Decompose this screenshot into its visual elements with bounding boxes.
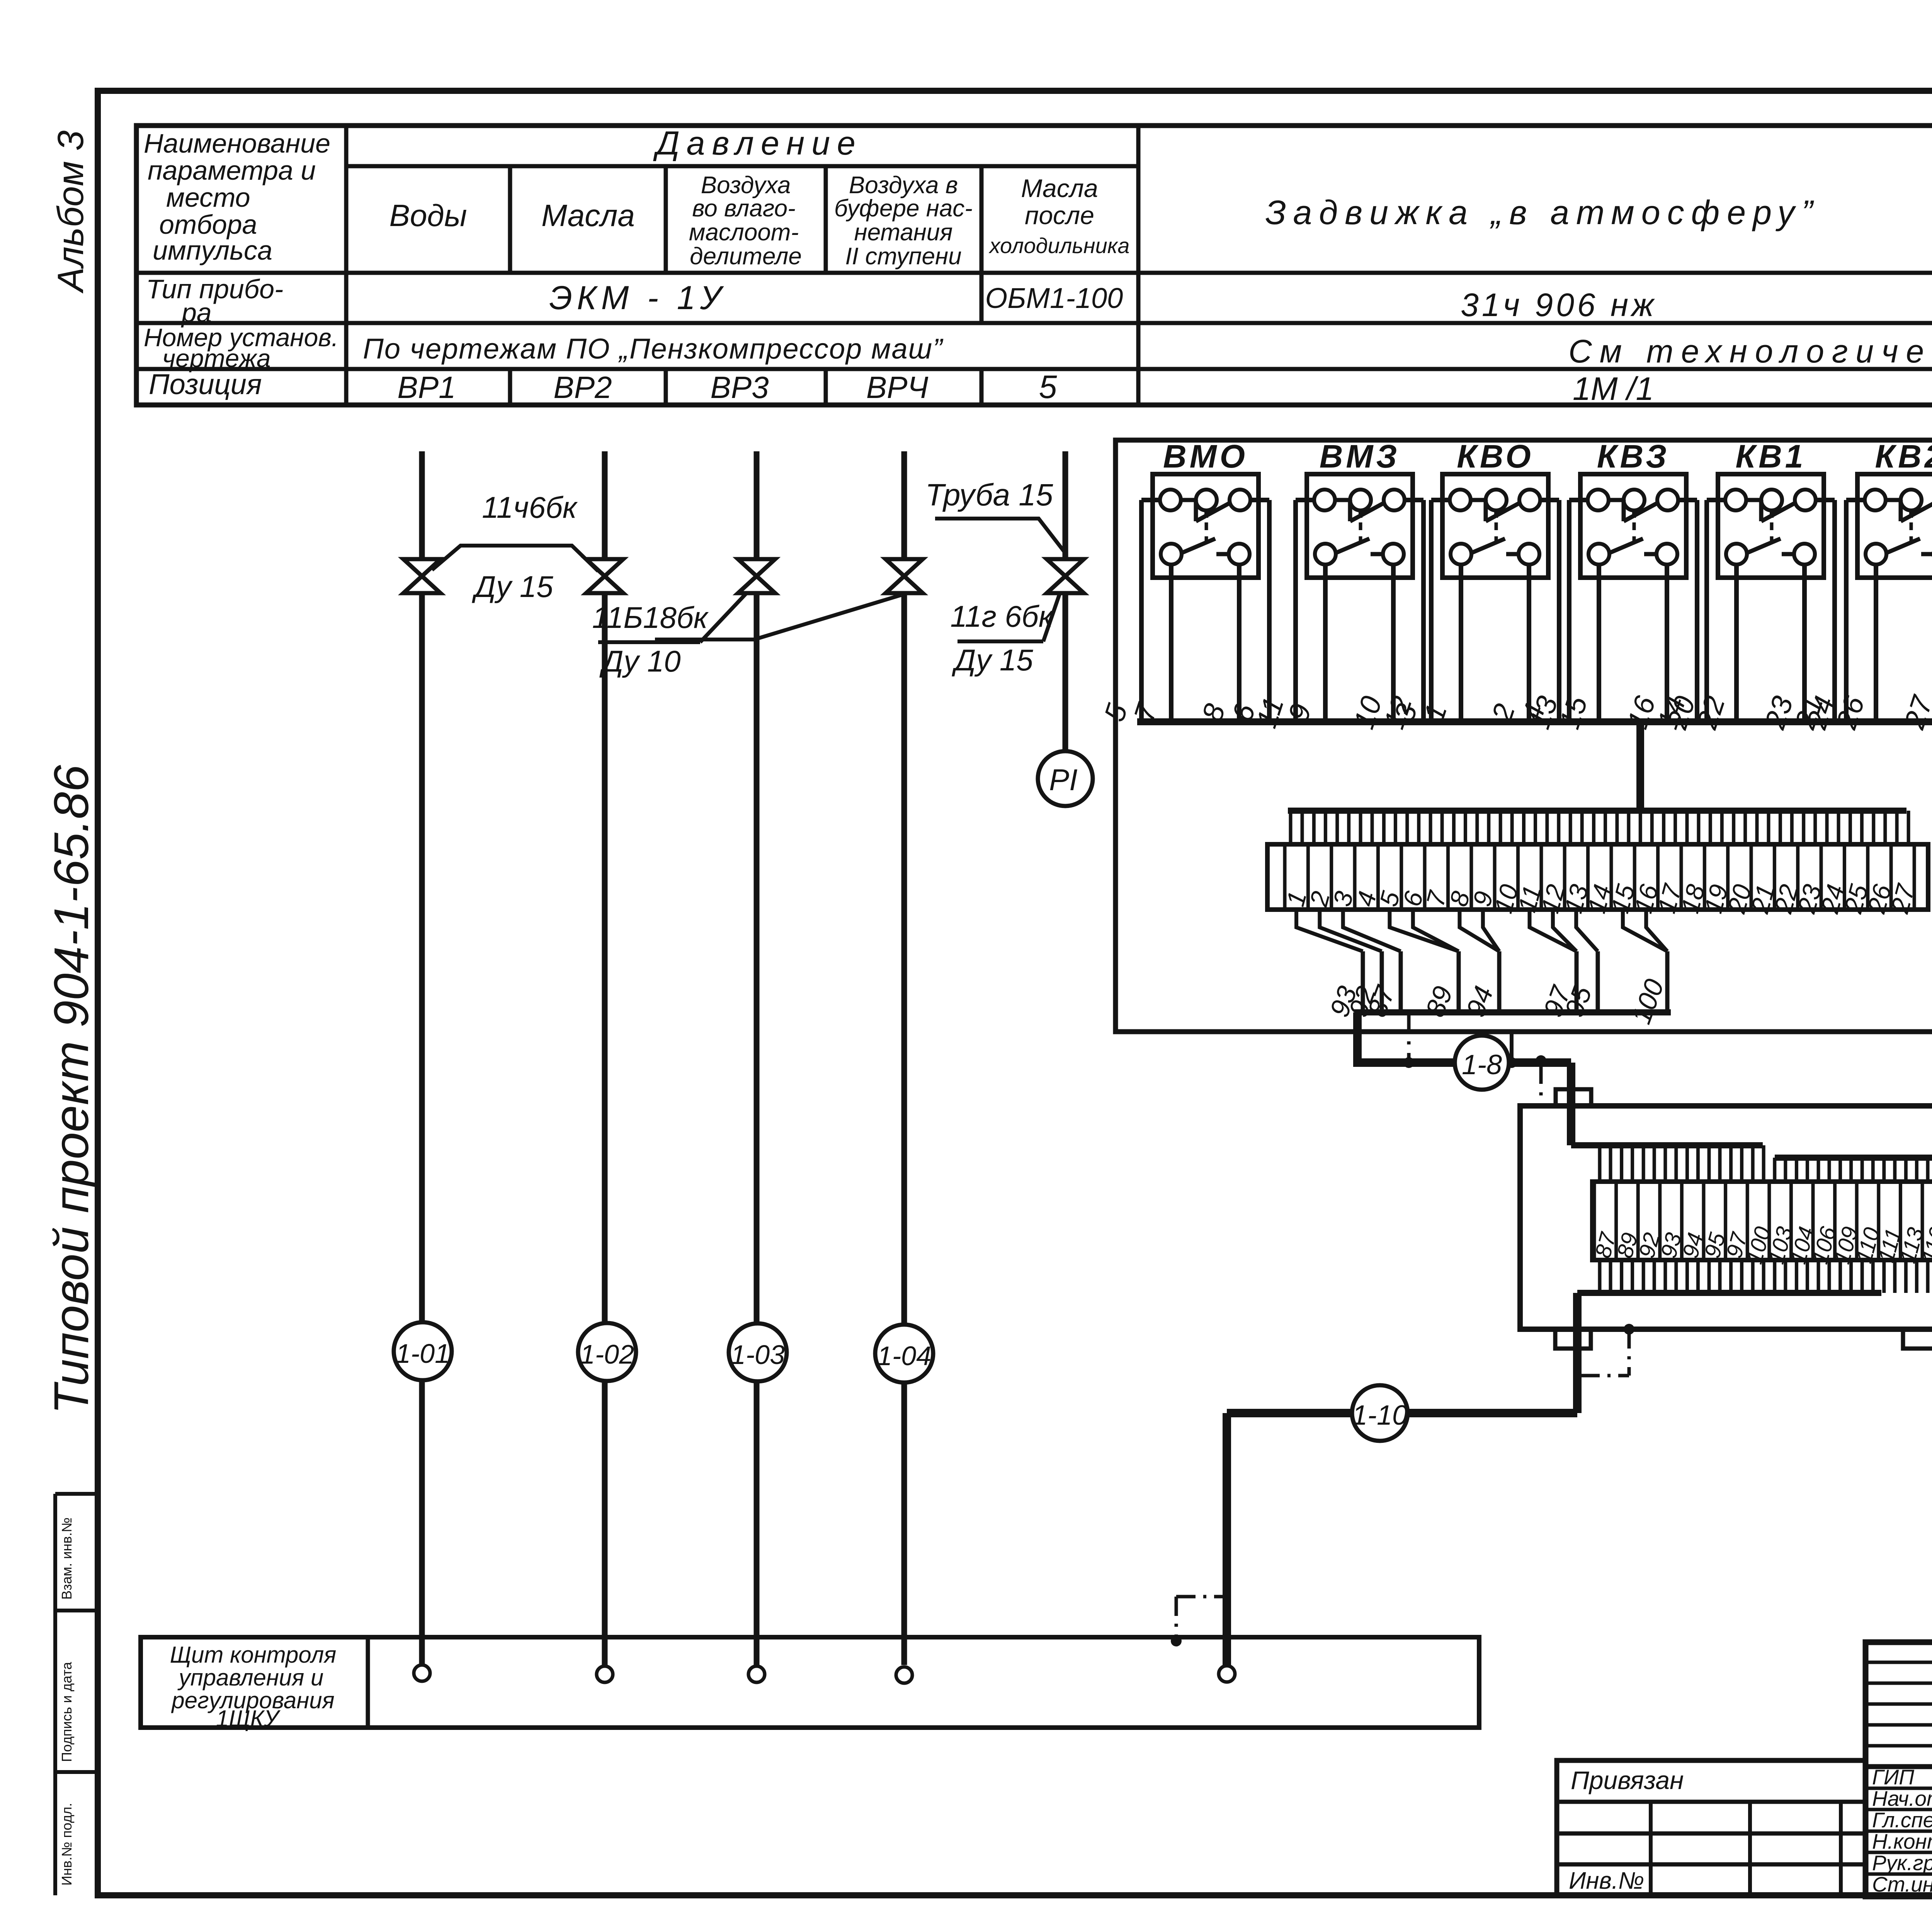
terminal finger 21 (1755, 811, 1759, 844)
КВ1 common stub (1770, 510, 1774, 518)
ВМЗ upper contact blade (1335, 498, 1350, 502)
КСК terminal strip body (1592, 1182, 1932, 1260)
terminal finger 6 (1405, 811, 1409, 844)
КВО wire right outer (1540, 498, 1559, 502)
panel wire 87 (1399, 951, 1403, 1012)
table vertical line Воды/Масла (508, 166, 512, 273)
КВ1 contact terminals top (1725, 490, 1746, 510)
КСК upper finger 111 (1882, 1158, 1886, 1182)
КСК bottom-right foot (1903, 1329, 1932, 1349)
КСК ground dot on bottom edge (1624, 1324, 1634, 1335)
limit switch ВМЗ box (1307, 474, 1413, 578)
limit switch ВМО box (1153, 474, 1259, 578)
svg-text:Труба 15: Труба 15 (925, 478, 1053, 512)
ВМЗ wire bottom left (1323, 565, 1328, 722)
svg-text:Гл.спец: Гл.спец (1872, 1808, 1932, 1832)
КВЗ wire bottom left (1597, 565, 1601, 722)
terminal cell divider 14 (1586, 844, 1590, 910)
fan wire from terminal 13 (1576, 910, 1598, 951)
КВ2 lower contact blade (1886, 539, 1920, 553)
svg-text:делителе: делителе (690, 243, 802, 270)
КСК terminal divider 97 (1724, 1182, 1727, 1260)
ВМО lower contact blade (1182, 539, 1215, 553)
impulse line 4 lower (901, 593, 907, 1325)
КСК terminal divider 89 (1614, 1182, 1618, 1260)
impulse line 3 lower (754, 593, 760, 1323)
КСК terminal divider 93 (1658, 1182, 1662, 1260)
ВМЗ lower contact blade (1336, 539, 1369, 553)
привязан box (1557, 1760, 1866, 1895)
terminal finger 13 (1569, 811, 1572, 844)
svg-text:11Б18бк: 11Б18бк (592, 600, 709, 634)
title block outer border (1866, 1642, 1932, 1896)
КСК upper finger 94 (1685, 1145, 1689, 1182)
КСК lower finger 113 (1904, 1260, 1908, 1293)
svg-text:ОБМ1-100: ОБМ1-100 (985, 282, 1123, 314)
table horizontal line under header row (136, 271, 1932, 275)
terminal strip upper rail (1288, 808, 1906, 814)
svg-text:ВРЧ: ВРЧ (866, 370, 929, 405)
КВ1 lower contact blade (1747, 539, 1781, 553)
ВМЗ contact terminals bottom (1315, 544, 1336, 565)
ВМО contact terminals top (1160, 490, 1181, 510)
svg-text:ГИП: ГИП (1872, 1765, 1914, 1789)
fan wire from terminal 8 (1459, 910, 1499, 951)
svg-text:Позиция: Позиция (149, 368, 262, 400)
terminal cell divider 23 (1796, 844, 1799, 910)
svg-text:РI: РI (1049, 763, 1078, 797)
terminal finger 22 (1779, 811, 1782, 844)
svg-text:Н.контр: Н.контр (1872, 1830, 1932, 1854)
ВМО wire left outer (1141, 498, 1160, 502)
КСК upper finger 92 (1642, 1145, 1645, 1182)
parameter table outer border (136, 126, 1932, 405)
panel wire 92 (1380, 951, 1384, 1012)
impulse line 5 (Труба 15) upper (1063, 451, 1068, 559)
terminal cell divider 20 (1726, 844, 1730, 910)
svg-text:параметра и: параметра и (148, 155, 316, 185)
КСК lower finger 104 (1795, 1260, 1798, 1293)
КВ2 mechanical link dashed (1910, 522, 1913, 543)
terminal finger 16 (1639, 811, 1642, 844)
svg-text:1-03: 1-03 (731, 1340, 785, 1370)
svg-text:1-04: 1-04 (877, 1341, 931, 1371)
terminal cell divider 2 (1306, 844, 1310, 910)
КВЗ wire left outer (1569, 498, 1588, 502)
terminal cell divider 8 (1446, 844, 1450, 910)
panel wire 100 (1665, 951, 1670, 1012)
КСК terminal divider 106 (1811, 1182, 1815, 1260)
svg-text:после: после (1025, 201, 1094, 230)
КСК upper finger 93 (1663, 1145, 1667, 1182)
terminal cell divider 7 (1423, 844, 1427, 910)
terminal cell divider 21 (1750, 844, 1753, 910)
underline and leader 11г6бк (957, 639, 1043, 643)
terminal finger 15 (1615, 811, 1619, 844)
svg-text:ВР1: ВР1 (397, 370, 456, 405)
panel wire 95 (1596, 951, 1600, 1012)
КВО common stub (1494, 510, 1498, 518)
panel wiring bus (1137, 718, 1932, 725)
КСК upper finger 103 (1773, 1158, 1776, 1182)
ВМЗ mechanical link dashed (1359, 522, 1362, 543)
panel ЩКУ label divider (366, 1637, 370, 1728)
panel wire 97 (1575, 951, 1579, 1012)
panel terminal circle line 2 (597, 1666, 613, 1682)
table vertical line Воздуха в буфере/Масла после (980, 166, 984, 323)
КСК upper finger 87 (1598, 1145, 1602, 1182)
cable 1-10 horizontal run (1227, 1409, 1577, 1417)
svg-text:управления и: управления и (177, 1665, 324, 1690)
КСК lower finger 94 (1685, 1260, 1689, 1293)
svg-text:1-01: 1-01 (396, 1338, 450, 1369)
ВМО upper contact blade (1181, 498, 1196, 502)
КВ2 contact terminals bottom (1866, 544, 1886, 565)
КСК upper finger 89 (1620, 1145, 1623, 1182)
limit switch КВО box (1442, 474, 1548, 578)
terminal finger 7 (1429, 811, 1432, 844)
terminal finger 1 (1289, 811, 1293, 844)
svg-text:КВЗ: КВЗ (1597, 438, 1670, 474)
terminal finger 2 (1312, 811, 1316, 844)
svg-text:импульса: импульса (153, 235, 272, 265)
ВМЗ common stub (1359, 510, 1362, 518)
svg-text:1ЩКУ: 1ЩКУ (216, 1706, 281, 1731)
ground branch dash-dot to КСК top (1539, 1063, 1543, 1106)
title block signature row lines (1866, 1787, 1932, 1790)
valve V1 11ч6бк (403, 559, 440, 593)
impulse line 2 (масло) upper (602, 451, 608, 559)
КСК lower finger 95 (1708, 1260, 1711, 1293)
terminal finger 5 (1382, 811, 1386, 844)
svg-text:Подпись и дата: Подпись и дата (59, 1662, 75, 1762)
leader to valve 4 (655, 595, 901, 639)
terminal cell divider 12 (1539, 844, 1543, 910)
ground dash-dot at panel entry (1176, 1595, 1227, 1599)
table vertical line col Наименование (344, 126, 349, 405)
impulse line 1 (вода) upper (419, 451, 425, 559)
fan wire from terminal 1 (1296, 910, 1363, 951)
КВО wire left outer (1431, 498, 1450, 502)
КСК terminal divider 87 (1593, 1182, 1596, 1260)
КСК lower finger 103 (1773, 1260, 1776, 1293)
ВМЗ wire bottom right (1391, 565, 1396, 722)
КВО contact terminals bottom (1451, 544, 1471, 565)
КСК terminal divider 100 (1746, 1182, 1749, 1260)
КВ1 upper contact blade (1746, 498, 1761, 502)
terminal finger 8 (1452, 811, 1456, 844)
КВЗ contact terminals bottom (1588, 544, 1609, 565)
КСК upper finger 113 (1904, 1158, 1908, 1182)
КСК upper finger 106 (1817, 1158, 1820, 1182)
svg-text:ВР2: ВР2 (553, 370, 612, 405)
svg-text:Ду 15: Ду 15 (951, 643, 1033, 677)
КСК lower finger 109 (1838, 1260, 1842, 1293)
svg-text:Масла: Масла (1021, 174, 1098, 202)
svg-text:ВР3: ВР3 (710, 370, 769, 405)
panel wire 94 (1497, 951, 1502, 1012)
terminal finger 4 (1359, 811, 1362, 844)
КСК ground dash-dot branch (1628, 1329, 1631, 1376)
valve V4 (886, 559, 923, 593)
КВ1 wire bottom right (1802, 565, 1807, 722)
cable 1-8 riser into КСК (1567, 1063, 1575, 1145)
svg-text:31ч 906 нж: 31ч 906 нж (1461, 287, 1657, 323)
svg-text:Воздуха: Воздуха (701, 172, 791, 199)
impulse line 3 upper (754, 451, 760, 559)
svg-text:буфере нас-: буфере нас- (834, 195, 973, 222)
svg-text:Привязан: Привязан (1571, 1766, 1684, 1794)
impulse line 4 upper (901, 451, 907, 559)
terminal cell divider 5 (1376, 844, 1380, 910)
terminal finger 3 (1335, 811, 1339, 844)
КСК terminal divider 94 (1680, 1182, 1684, 1260)
cable 1-10 drop to panel ЩКУ (1223, 1413, 1231, 1665)
svg-text:Рук.гр.: Рук.гр. (1872, 1851, 1932, 1875)
cable circle 1-8 (1455, 1036, 1509, 1090)
svg-text:1-10: 1-10 (1352, 1400, 1408, 1431)
table horizontal line under drawing number row (136, 367, 1932, 371)
svg-text:Ст.инж: Ст.инж (1872, 1872, 1932, 1896)
terminal cell divider 27 (1889, 844, 1893, 910)
КСК terminal divider 104 (1789, 1182, 1793, 1260)
КСК terminal divider 92 (1636, 1182, 1640, 1260)
КСК lower finger 106 (1817, 1260, 1820, 1293)
terminal cell divider 1 (1283, 844, 1287, 910)
КВ1 mechanical link dashed (1770, 522, 1774, 543)
ВМО wire bottom left (1169, 565, 1173, 722)
svg-text:Наименование: Наименование (144, 128, 330, 158)
КВ1 contact terminals bottom (1726, 544, 1747, 565)
left stamp column boxes (53, 1494, 57, 1895)
svg-text:место: место (166, 182, 250, 213)
terminal finger 17 (1662, 811, 1665, 844)
svg-text:1-8: 1-8 (1462, 1049, 1502, 1080)
svg-text:1М /1: 1М /1 (1573, 371, 1654, 407)
valve V3 11Б18бк (738, 559, 775, 593)
terminal cell divider 25 (1843, 844, 1846, 910)
КВ2 common stub (1909, 510, 1913, 518)
КВ2 contact terminals top (1865, 490, 1886, 510)
svg-text:Ду 10: Ду 10 (599, 644, 680, 678)
panel terminal circle line 1 (414, 1665, 430, 1681)
svg-text:нетания: нетания (854, 219, 952, 246)
panel terminal circle line 4 (896, 1667, 912, 1683)
table horizontal line under instrument type row (136, 321, 1932, 325)
terminal cell divider 26 (1866, 844, 1869, 910)
КВЗ mechanical link dashed (1633, 522, 1636, 543)
terminal cell divider 10 (1493, 844, 1497, 910)
cable marker 1-03 (754, 1381, 760, 1665)
svg-text:Инв.№ подл.: Инв.№ подл. (59, 1803, 75, 1886)
svg-text:Альбом 3: Альбом 3 (50, 130, 91, 294)
svg-text:ЭКМ - 1У: ЭКМ - 1У (549, 279, 726, 316)
cable marker 1-02 (602, 1380, 608, 1665)
terminal finger 24 (1825, 811, 1829, 844)
КСК lower finger 116 (1926, 1260, 1930, 1293)
cable 1-8 drop from panel (1357, 1012, 1571, 1063)
terminal cell divider 6 (1400, 844, 1403, 910)
svg-text:Нач.отд: Нач.отд (1872, 1787, 1932, 1811)
underline and leader 11Б18бк (598, 640, 700, 644)
svg-text:КВО: КВО (1457, 438, 1534, 474)
panel wire 93 (1361, 951, 1365, 1012)
terminal cell divider 24 (1820, 844, 1823, 910)
terminal finger 23 (1802, 811, 1805, 844)
terminal finger 11 (1522, 811, 1526, 844)
КСК lower finger 100 (1751, 1260, 1755, 1293)
КСК upper finger 100 (1751, 1145, 1755, 1182)
КВО lower contact blade (1471, 539, 1505, 553)
ВМО mechanical link dashed (1205, 522, 1208, 543)
ground branch dash-dot at 1-8 (1407, 1012, 1411, 1063)
КСК terminal divider 111 (1877, 1182, 1880, 1260)
terminal cell divider 13 (1563, 844, 1566, 910)
valve V5 11г6бк (1047, 559, 1084, 593)
svg-text:Задвижка „в атмосферу”: Задвижка „в атмосферу” (1265, 193, 1820, 231)
svg-text:КВ1: КВ1 (1735, 438, 1806, 474)
КСК right gather rail (1775, 1155, 1932, 1161)
panel ЩКУ body (141, 1637, 1479, 1728)
КСК upper finger 109 (1838, 1158, 1842, 1182)
КСК lower finger 111 (1882, 1260, 1886, 1293)
КСК lower finger 92 (1642, 1260, 1645, 1293)
svg-text:Типовой проект 904-1-65.86: Типовой проект 904-1-65.86 (44, 765, 99, 1414)
КСК lower finger 87 (1598, 1260, 1602, 1293)
underline and leader Труба 15 (935, 519, 1065, 553)
terminal finger 20 (1732, 811, 1735, 844)
table vertical line Масла/Воздуха (664, 166, 668, 273)
impulse line 1 lower (419, 593, 425, 1322)
fan wire from terminal 3 (1343, 910, 1401, 951)
fan wire from terminal 5 (1389, 910, 1459, 951)
cable marker 1-01 (419, 1380, 425, 1665)
svg-text:Воздуха в: Воздуха в (849, 172, 958, 199)
limit switch КВЗ box (1580, 474, 1686, 578)
table horizontal line under Давление (346, 164, 1138, 168)
terminal finger 12 (1545, 811, 1549, 844)
terminal finger 14 (1592, 811, 1595, 844)
svg-text:во влаго-: во влаго- (692, 195, 795, 222)
svg-text:Щит контроля: Щит контроля (170, 1642, 337, 1668)
svg-text:II ступени: II ступени (845, 243, 961, 270)
panel bottom tie with junction dot (1510, 1032, 1514, 1063)
svg-text:11ч6бк: 11ч6бк (482, 490, 578, 524)
relay panel box 1M/1 (1116, 440, 1932, 1032)
КВО wire bottom left (1459, 565, 1463, 722)
КСК-16 box body (1520, 1106, 1932, 1329)
КСК top-left gland (1556, 1089, 1591, 1106)
panel wire 89 (1457, 951, 1461, 1012)
fan wire from terminal 11 (1530, 910, 1577, 951)
КСК lower finger 97 (1729, 1260, 1733, 1293)
svg-text:1-02: 1-02 (580, 1339, 634, 1369)
fan wire from terminal 6 (1413, 910, 1459, 951)
КВ1 wire right outer (1816, 498, 1835, 502)
КСК upper finger 95 (1708, 1145, 1711, 1182)
КСК terminal divider 103 (1767, 1182, 1771, 1260)
ВМЗ wire right outer (1405, 498, 1423, 502)
terminal finger 18 (1685, 811, 1689, 844)
svg-text:маслоот-: маслоот- (689, 219, 799, 246)
terminal finger 19 (1709, 811, 1712, 844)
fan wire from terminal 9 (1483, 910, 1499, 951)
title block revision row lines (1866, 1661, 1932, 1664)
ВМЗ wire left outer (1296, 498, 1314, 502)
svg-text:По чертежам ПО „Пензкомпрессо: По чертежам ПО „Пензкомпрессор маш” (363, 333, 944, 365)
impulse line 2 lower (602, 593, 608, 1322)
terminal cell divider 18 (1679, 844, 1683, 910)
table vertical line Воздуха/Воздуха в буфере (824, 166, 828, 273)
impulse line 5 to PI (1063, 593, 1068, 751)
КСК bottom-left foot (1555, 1329, 1591, 1349)
terminal cell divider 17 (1656, 844, 1660, 910)
svg-text:холодильника: холодильника (988, 233, 1130, 258)
terminal cell divider 11 (1516, 844, 1520, 910)
КВ2 wire bottom left (1874, 565, 1878, 722)
КВЗ common stub (1632, 510, 1636, 518)
terminal finger 9 (1475, 811, 1479, 844)
КСК terminal divider 113 (1899, 1182, 1902, 1260)
svg-text:Тип прибо-: Тип прибо- (146, 274, 283, 304)
fan wire from terminal 12 (1553, 910, 1577, 951)
ВМО contact terminals bottom (1161, 544, 1182, 565)
ВМЗ contact terminals top (1314, 490, 1335, 510)
КСК upper finger 116 (1926, 1158, 1930, 1182)
fan wire from terminal 15 (1623, 910, 1667, 951)
ВМО wire right outer (1250, 498, 1269, 502)
КВЗ wire bottom right (1665, 565, 1669, 722)
КСК upper finger 110 (1861, 1158, 1864, 1182)
КСК upper finger 97 (1729, 1145, 1733, 1182)
КВЗ upper contact blade (1609, 498, 1624, 502)
КВ2 wire left outer (1846, 498, 1865, 502)
terminal cell divider 9 (1469, 844, 1473, 910)
КВЗ lower contact blade (1609, 539, 1643, 553)
terminal cell divider 19 (1703, 844, 1706, 910)
terminal strip 1ЩКУ body (1267, 844, 1928, 910)
привязан row lines (1557, 1800, 1866, 1804)
panel terminal circle cable 1-10 (1219, 1666, 1235, 1682)
limit switch КВ2 box (1857, 474, 1932, 578)
cable 1-10 drop from КСК (1573, 1293, 1582, 1413)
svg-text:Инв.№: Инв.№ (1569, 1867, 1644, 1894)
КСК lower finger 93 (1663, 1260, 1667, 1293)
terminal finger 27 (1895, 811, 1899, 844)
КВО upper contact blade (1471, 498, 1486, 502)
КВ1 wire bottom left (1734, 565, 1739, 722)
svg-text:Воды: Воды (389, 198, 467, 233)
panel lower gather rail (1354, 1009, 1671, 1015)
fan wire from terminal 2 (1320, 910, 1382, 951)
fan wire from terminal 16 (1646, 910, 1667, 951)
КВ1 wire left outer (1707, 498, 1725, 502)
КВО wire bottom right (1527, 565, 1531, 722)
svg-text:11г 6бк: 11г 6бк (950, 599, 1054, 633)
svg-text:5: 5 (1039, 369, 1057, 405)
svg-text:ВМО: ВМО (1163, 438, 1248, 474)
svg-text:КВ2: КВ2 (1875, 438, 1932, 474)
КВО mechanical link dashed (1495, 522, 1498, 543)
КВЗ wire right outer (1678, 498, 1697, 502)
pressure gauge PI (1038, 751, 1093, 806)
svg-text:Масла: Масла (541, 198, 635, 233)
svg-text:ВМЗ: ВМЗ (1320, 438, 1400, 474)
panel terminal circle line 3 (748, 1666, 765, 1682)
КСК lower gather rail (1577, 1290, 1881, 1296)
terminal cell divider 3 (1330, 844, 1333, 910)
КСК terminal divider 95 (1702, 1182, 1706, 1260)
